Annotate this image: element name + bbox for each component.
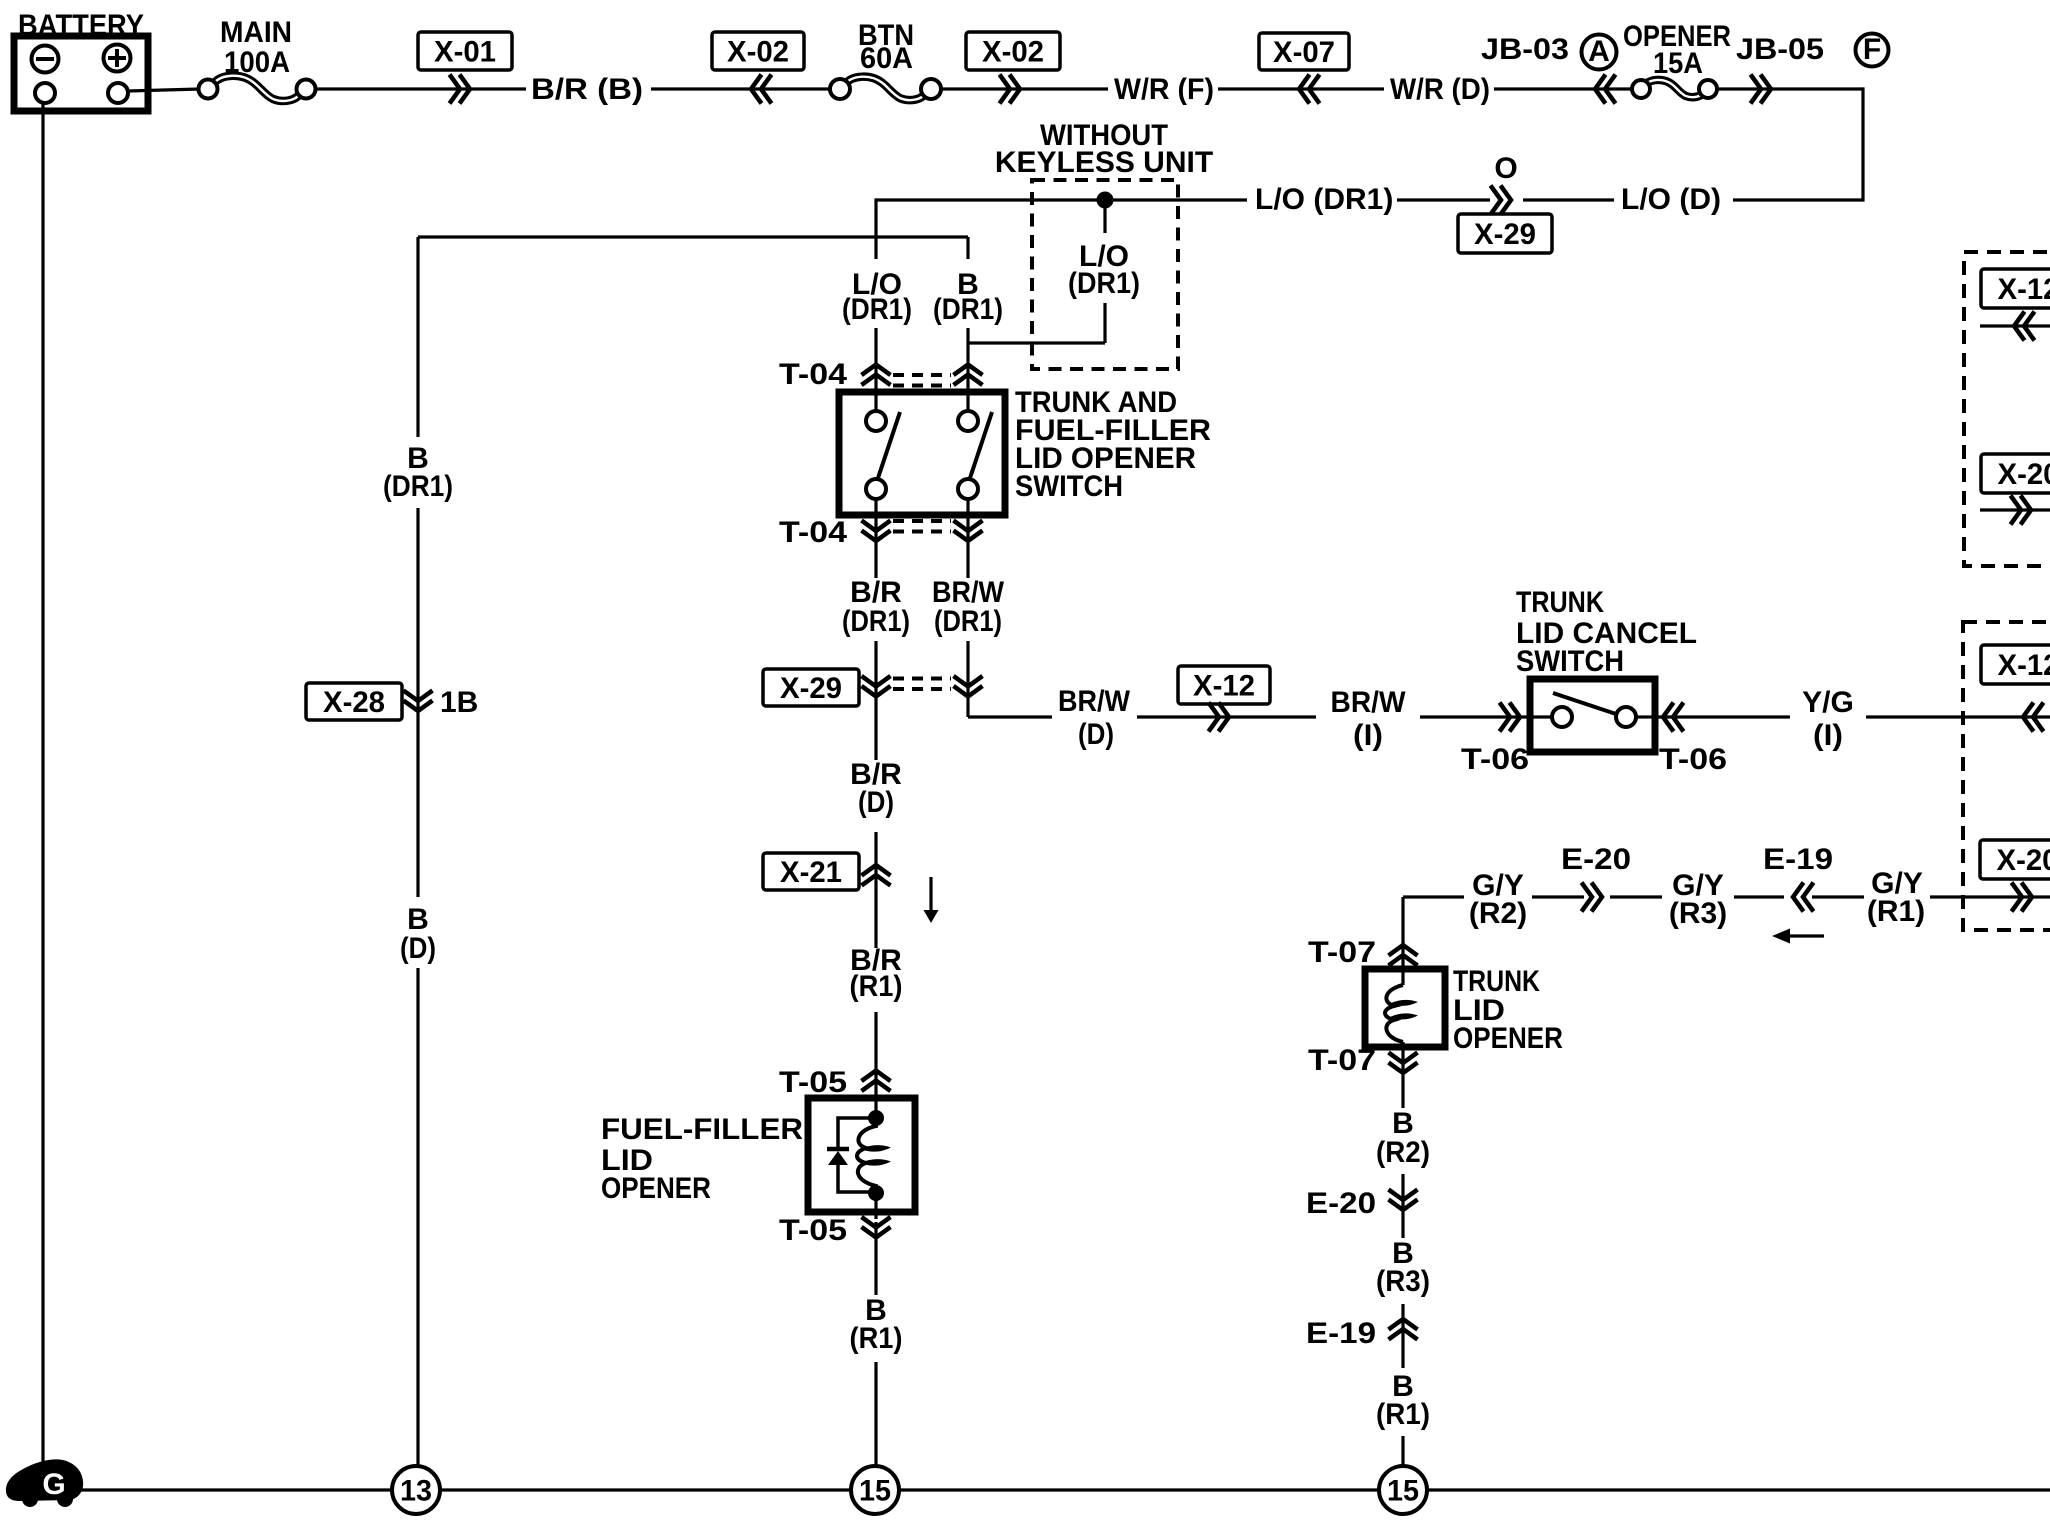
svg-text:BATTERY: BATTERY — [18, 9, 144, 42]
svg-text:(DR1): (DR1) — [842, 293, 912, 326]
svg-text:TRUNK: TRUNK — [1516, 586, 1604, 619]
svg-text:MAIN: MAIN — [220, 16, 292, 49]
svg-text:T-07: T-07 — [1308, 1044, 1376, 1077]
svg-text:(R3): (R3) — [1376, 1265, 1430, 1298]
svg-text:(R2): (R2) — [1469, 897, 1527, 930]
svg-text:(R1): (R1) — [850, 970, 903, 1003]
svg-text:X-12: X-12 — [1998, 649, 2050, 682]
svg-text:X-12: X-12 — [1193, 670, 1255, 703]
svg-text:15: 15 — [859, 1475, 891, 1508]
svg-text:(R3): (R3) — [1669, 897, 1727, 930]
svg-text:T-06: T-06 — [1659, 743, 1727, 776]
svg-text:L/O (D): L/O (D) — [1621, 183, 1721, 216]
svg-text:60A: 60A — [860, 42, 913, 75]
svg-text:E-20: E-20 — [1561, 843, 1631, 876]
svg-text:X-20: X-20 — [1997, 844, 2050, 877]
svg-text:T-04: T-04 — [779, 516, 847, 549]
svg-text:SWITCH: SWITCH — [1015, 470, 1123, 503]
svg-text:(D): (D) — [858, 786, 894, 819]
svg-text:X-29: X-29 — [1474, 218, 1536, 251]
svg-text:(DR1): (DR1) — [1068, 267, 1140, 300]
svg-text:(DR1): (DR1) — [934, 605, 1002, 638]
svg-text:(DR1): (DR1) — [383, 470, 453, 503]
svg-text:(I): (I) — [1353, 719, 1383, 752]
svg-text:E-19: E-19 — [1763, 843, 1833, 876]
svg-text:BR/W: BR/W — [1058, 685, 1131, 718]
svg-text:(DR1): (DR1) — [933, 293, 1003, 326]
svg-text:(R2): (R2) — [1376, 1136, 1430, 1169]
svg-text:X-20: X-20 — [1998, 458, 2050, 491]
svg-text:15A: 15A — [1653, 47, 1703, 80]
svg-text:FUEL-FILLER: FUEL-FILLER — [601, 1113, 803, 1146]
svg-text:E-20: E-20 — [1306, 1187, 1376, 1220]
svg-text:T-05: T-05 — [779, 1066, 847, 1099]
svg-text:F: F — [1863, 33, 1881, 66]
svg-text:(D): (D) — [1078, 718, 1114, 751]
svg-text:OPENER: OPENER — [1453, 1022, 1563, 1055]
svg-text:(R1): (R1) — [850, 1322, 903, 1355]
svg-text:13: 13 — [400, 1475, 432, 1508]
svg-text:T-06: T-06 — [1461, 743, 1529, 776]
svg-text:X-12: X-12 — [1998, 273, 2050, 306]
svg-text:X-02: X-02 — [727, 36, 789, 69]
svg-text:G: G — [42, 1468, 65, 1501]
svg-text:W/R (D): W/R (D) — [1390, 73, 1490, 106]
svg-text:(D): (D) — [400, 932, 436, 965]
svg-text:X-28: X-28 — [323, 686, 385, 719]
svg-text:SWITCH: SWITCH — [1516, 645, 1624, 678]
svg-text:T-07: T-07 — [1308, 936, 1376, 969]
svg-text:KEYLESS UNIT: KEYLESS UNIT — [995, 146, 1213, 179]
svg-text:E-19: E-19 — [1306, 1317, 1376, 1350]
svg-text:X-02: X-02 — [982, 36, 1044, 69]
svg-text:L/O (DR1): L/O (DR1) — [1255, 183, 1393, 216]
svg-text:JB-03: JB-03 — [1481, 33, 1569, 66]
svg-text:X-21: X-21 — [780, 856, 842, 889]
svg-text:Y/G: Y/G — [1802, 686, 1854, 719]
svg-text:1B: 1B — [440, 686, 478, 719]
svg-text:A: A — [1588, 35, 1610, 68]
svg-text:T-04: T-04 — [779, 358, 847, 391]
svg-text:(DR1): (DR1) — [842, 605, 910, 638]
svg-text:X-01: X-01 — [434, 36, 496, 69]
svg-text:BR/W: BR/W — [1331, 686, 1407, 719]
svg-text:JB-05: JB-05 — [1736, 33, 1824, 66]
svg-text:(R1): (R1) — [1376, 1398, 1430, 1431]
svg-text:X-29: X-29 — [780, 672, 842, 705]
svg-text:(I): (I) — [1813, 719, 1843, 752]
svg-text:T-05: T-05 — [779, 1214, 847, 1247]
svg-text:(R1): (R1) — [1867, 895, 1925, 928]
svg-text:B/R (B): B/R (B) — [531, 73, 643, 106]
svg-text:OPENER: OPENER — [601, 1172, 711, 1205]
svg-text:15: 15 — [1387, 1475, 1419, 1508]
svg-text:O: O — [1494, 152, 1517, 185]
svg-text:X-07: X-07 — [1273, 36, 1335, 69]
svg-text:W/R (F): W/R (F) — [1114, 73, 1214, 106]
